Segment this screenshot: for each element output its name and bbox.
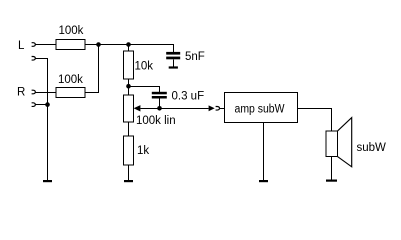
resistor R4 1k: [124, 136, 134, 165]
resistor R3 10k: [124, 51, 134, 79]
svg-text:100k: 100k: [58, 74, 83, 86]
svg-text:5nF: 5nF: [185, 51, 205, 63]
wire R1 to node1: [85, 44, 99, 46]
wire R-top pin to R2: [35, 92, 56, 94]
wire C1 to ground: [173, 59, 175, 66]
wire amp to ground: [263, 123, 265, 181]
wire node2 to C1: [129, 45, 174, 53]
junction node2: [126, 42, 131, 47]
wire R3 to pot: [128, 79, 130, 95]
wire speaker to ground: [331, 157, 333, 181]
svg-text:0.3 uF: 0.3 uF: [172, 91, 205, 103]
potentiometer VR1 100k lin: [124, 95, 134, 122]
wire C2 to wiper: [159, 99, 161, 109]
junction node1: [96, 42, 101, 47]
connector pin R-bottom: [32, 103, 36, 107]
junction node3: [126, 84, 131, 89]
svg-text:amp subW: amp subW: [235, 104, 285, 116]
wire amp output to speaker: [298, 109, 332, 132]
ground (amp): [259, 180, 268, 182]
svg-text:subW: subW: [357, 142, 387, 154]
wire wiper to amp: [140, 108, 208, 110]
connector pin L-top: [32, 43, 36, 47]
connector pin L-bottom: [32, 57, 36, 61]
svg-text:R: R: [17, 87, 25, 99]
capacitor C1 5nF: [166, 52, 180, 59]
arrowhead into amp: [209, 105, 215, 111]
wire R-bottom pin to ground bus: [35, 104, 47, 106]
resistor R2 100k: [56, 88, 85, 98]
junction ground bus / R-bottom: [45, 102, 50, 107]
wire L-top to R1: [35, 44, 56, 46]
potentiometer wiper arrow: [134, 105, 141, 111]
svg-text:100k lin: 100k lin: [136, 115, 176, 127]
resistor R1 100k: [56, 40, 85, 50]
ground (speaker): [326, 180, 337, 182]
connector pin R-top: [32, 90, 36, 94]
wire node1 to node2: [99, 44, 129, 46]
capacitor C2 0.3uF: [152, 92, 167, 99]
ground (R4): [124, 180, 133, 182]
wire pin to amp box: [220, 108, 225, 110]
svg-text:10k: 10k: [135, 61, 154, 73]
connector pin amp input: [216, 107, 220, 111]
svg-text:100k: 100k: [59, 25, 84, 37]
ground (C1): [169, 66, 178, 68]
amp U1 box: [225, 93, 298, 123]
ground (input bus): [43, 180, 52, 182]
junction node4 (wiper line): [157, 106, 162, 111]
svg-text:1k: 1k: [137, 145, 149, 157]
wire L-bottom pin right and down (ground bus): [35, 59, 47, 181]
wire node3 to C2: [129, 87, 160, 92]
wire node1 down to R2: [85, 45, 99, 93]
wire node2 down to R3: [128, 45, 130, 52]
speaker LS1: [326, 118, 352, 167]
svg-text:L: L: [18, 40, 25, 52]
wire pot bottom to R4: [128, 122, 130, 136]
wire R4 to ground: [128, 165, 130, 180]
